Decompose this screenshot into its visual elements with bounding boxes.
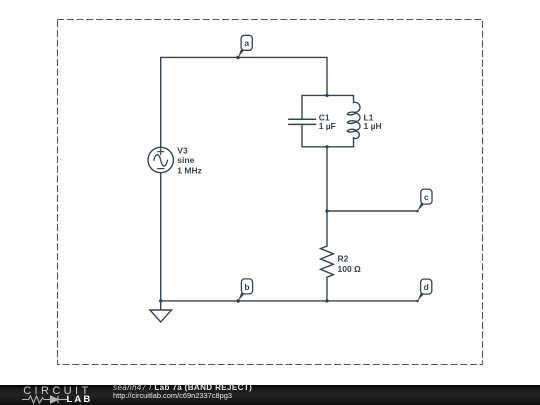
CircuitLab logo wordmark CIRCUIT [23,386,91,397]
wire left vertical lower [160,173,162,301]
node junction tank bottom [325,145,328,148]
voltage source V3 [148,147,173,172]
CircuitLab logo squiggle (resistor + diode) [22,394,72,405]
svg-text:b: b [244,282,249,292]
footer bar [0,385,540,405]
svg-text:V3: V3 [177,145,188,155]
capacitor C1 label [319,112,336,131]
wire bottom (node b net) [161,300,418,302]
wire top (node a net) [161,56,327,58]
node a flag [238,35,252,57]
ground [150,301,172,322]
svg-text:100 Ω: 100 Ω [338,264,362,274]
wire tank bottom [302,146,354,148]
svg-text:1 µH: 1 µH [364,121,382,131]
wire tank top [302,94,354,96]
svg-text:d: d [424,282,429,292]
voltage source V3 label [177,145,202,175]
node b junction dot [236,299,240,303]
node c anchor dot [416,210,419,213]
resistor R2 [321,246,334,277]
node b flag [238,279,252,301]
wire to node c [327,210,418,212]
svg-text:1 µF: 1 µF [319,121,336,131]
schematic outline dashed border [58,20,483,365]
node d anchor dot [416,300,419,303]
node junction c tap [325,209,328,212]
node d flag [417,279,431,301]
resistor R2 label [338,253,362,274]
footer title [113,384,252,392]
footer url [113,392,232,399]
node junction resistor bottom [325,299,328,302]
svg-text:a: a [244,38,249,48]
svg-text:R2: R2 [338,253,349,263]
node c flag [418,189,433,211]
inductor L1 [347,95,360,146]
wire left vertical upper [160,57,162,147]
wire below resistor [326,277,328,301]
svg-text:1 MHz: 1 MHz [177,165,202,175]
inductor L1 label [364,112,382,131]
node junction bottom left [159,299,162,302]
node junction tank top [325,94,328,97]
wire middle vertical [326,147,328,246]
capacitor C1 [289,95,316,146]
CircuitLab logo wordmark LAB [67,395,93,405]
node a junction dot [236,56,240,60]
svg-text:sine: sine [177,155,194,165]
wire right vertical to tank [326,57,328,95]
svg-text:c: c [424,192,429,202]
